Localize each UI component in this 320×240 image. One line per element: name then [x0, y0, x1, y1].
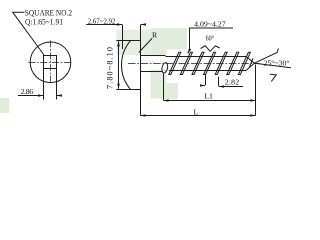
L dimension line — [141, 115, 256, 117]
leader and arrow 2.82 — [219, 86, 243, 88]
watermark patch E2 (lower lip of E) — [151, 49, 167, 55]
thread flight 5 — [215, 52, 227, 74]
thread flight 3 — [192, 52, 204, 74]
leader arrow 4.09~4.27 — [188, 50, 190, 54]
dimension line 2.86 with arrows — [18, 95, 43, 97]
watermark patch B (bar center) — [151, 70, 167, 99]
thread flight 4 — [204, 52, 216, 74]
tip extension line — [255, 65, 257, 116]
watermark patch D (band over head top) — [117, 30, 151, 56]
svg-text:Q:1.65~1.91: Q:1.65~1.91 — [25, 17, 63, 27]
svg-text:R: R — [152, 31, 158, 40]
extension line head top / head top flat — [116, 40, 141, 42]
head dome arc — [121, 41, 130, 90]
extension lines from square recess for 2.86 — [44, 69, 57, 100]
point angle lower line — [254, 63, 291, 68]
vertical centerline of front view — [50, 40, 52, 84]
watermark patch C (square center bottom) — [166, 83, 178, 99]
leader from note to square recess — [13, 12, 44, 55]
vertical dimension line 7.80~8.10 with arrows — [118, 41, 120, 89]
watermark patch A (left edge) — [0, 98, 9, 113]
shank bottom line — [141, 71, 163, 73]
svg-text:2.82: 2.82 — [225, 77, 239, 86]
right arrow tick 2.67~2.92 — [141, 24, 146, 26]
leader line 4.09~4.27 — [190, 28, 234, 50]
thread flight 2 — [180, 52, 192, 74]
extension lines for 2.82 pitch — [206, 75, 219, 87]
extension line at dome apex — [122, 25, 124, 50]
point taper bottom — [246, 63, 254, 70]
thread flight 1 — [169, 52, 181, 74]
L1 dimension line — [164, 100, 256, 102]
thread flight 8 small on taper — [250, 58, 254, 67]
thread start run-out ellipse — [161, 62, 168, 73]
point angle upper line — [254, 48, 278, 63]
R leader — [139, 38, 152, 52]
head front view circle — [30, 42, 71, 83]
square recess — [44, 56, 57, 69]
head right face — [140, 25, 142, 116]
extension line head bottom / head bottom flat — [116, 89, 141, 91]
60 degree profile zigzag — [201, 46, 220, 52]
svg-text:4.09~4.27: 4.09~4.27 — [194, 20, 226, 29]
svg-text:L: L — [194, 108, 199, 117]
L1 extension line at thread start — [163, 73, 165, 100]
thread flight 6 — [227, 52, 239, 74]
svg-text:7.80~8.10: 7.80~8.10 — [106, 47, 115, 89]
horizontal centerline of front view — [29, 62, 73, 64]
screw axis centerline — [128, 63, 260, 65]
thread flight 7 — [238, 52, 250, 74]
shank top line — [141, 55, 166, 57]
svg-text:L1: L1 — [204, 91, 213, 100]
left arrow tick 2.82 — [200, 85, 205, 87]
svg-text:60°: 60° — [206, 33, 215, 42]
point taper top — [246, 57, 254, 64]
watermark patch E (band over R and thread start) — [151, 28, 187, 50]
svg-text:2.86: 2.86 — [21, 87, 34, 96]
thread root top line — [166, 56, 247, 58]
svg-text:25°~30°: 25°~30° — [264, 59, 290, 67]
dimension line 2.67~2.92 with arrow — [86, 24, 122, 26]
point angle lower tick mark — [270, 74, 276, 81]
thread root bottom line — [169, 70, 246, 72]
